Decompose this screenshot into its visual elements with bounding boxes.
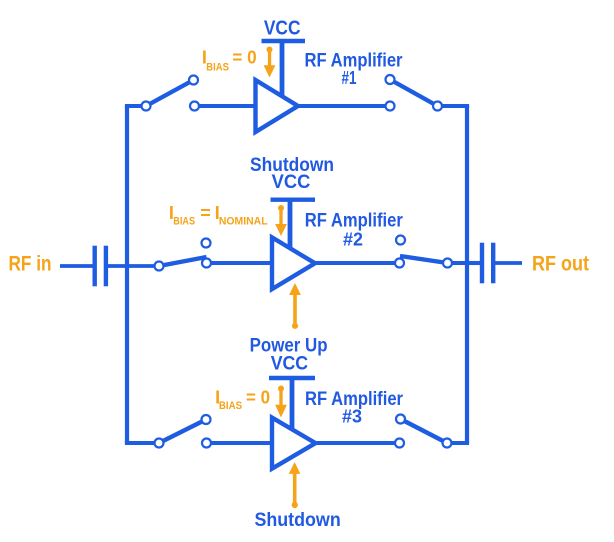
switch S3 blade (closed) <box>159 257 207 266</box>
switch S2 contact terminal <box>386 102 395 111</box>
VCC rail for U1 <box>262 39 306 43</box>
wire: right bus to output cap C2 <box>467 261 481 265</box>
switch S1 contact terminal <box>190 102 199 111</box>
bias arrow for U3 (points down) <box>275 386 287 418</box>
wire: VCC drop to amp U2 <box>288 200 293 248</box>
switch S6 open throw terminal <box>396 415 405 424</box>
switch S4 pole terminal <box>443 259 452 268</box>
bias arrow for U2 (points down) <box>275 205 287 236</box>
svg-text:#3: #3 <box>342 407 362 427</box>
wire: VCC drop to amp U1 <box>280 41 285 96</box>
switch S3 pole terminal <box>155 262 164 271</box>
wire: amp U2 output to switch S4 contact <box>312 261 400 265</box>
switch S2 open throw terminal <box>386 75 395 84</box>
bias arrow for U1 (points down) <box>264 47 276 78</box>
svg-text:RF Amplifier: RF Amplifier <box>305 210 404 231</box>
switch S3 upper throw terminal <box>202 239 211 248</box>
svg-text:#2: #2 <box>343 230 363 250</box>
wire: top branch, left corner to switch S1 pole <box>125 104 146 108</box>
wire: amp U3 output to switch S6 contact <box>312 441 400 445</box>
value label: IBIAS = 0 (U1) <box>202 48 257 74</box>
svg-text:BIAS: BIAS <box>219 400 242 412</box>
wire: right bus vertical <box>465 106 469 443</box>
switch S4 contact terminal <box>395 259 404 268</box>
switch S2 pole terminal <box>433 102 442 111</box>
svg-text:= 0: = 0 <box>232 48 256 68</box>
svg-text:= 0: = 0 <box>246 388 270 408</box>
capacitor C2 (output coupling) <box>482 243 493 284</box>
switch S6 pole terminal <box>443 439 452 448</box>
switch S1 pole terminal <box>142 102 151 111</box>
wire: S4 pole to right bus junction <box>448 261 468 265</box>
switch S1 open throw terminal <box>189 76 198 85</box>
switch S6 blade (open) <box>401 419 448 443</box>
svg-text:VCC: VCC <box>271 354 309 375</box>
svg-text:BIAS: BIAS <box>173 215 195 227</box>
capacitor C1 (input coupling) <box>95 246 106 287</box>
VCC rail for U3 <box>269 376 315 380</box>
switch S5 contact terminal <box>202 439 211 448</box>
svg-text:RF in: RF in <box>9 253 52 276</box>
svg-text:#1: #1 <box>342 68 357 88</box>
switch S2 blade (open) <box>390 80 438 107</box>
wire: S3 contact to amp U2 input <box>207 261 275 265</box>
wire: top branch, S2 pole to right corner <box>438 104 470 108</box>
switch S3 contact terminal <box>202 259 211 268</box>
amplifier U2 (RF Amplifier #2) <box>272 237 315 289</box>
switch S4 blade (closed) <box>400 256 448 263</box>
value label: IBIAS = INOMINAL (U2) <box>169 203 268 227</box>
switch S1 blade (open) <box>146 80 194 106</box>
amplifier U3 (RF Amplifier #3) <box>272 418 316 469</box>
wire: bottom branch, left corner to switch S5 pole <box>125 441 159 445</box>
svg-text:BIAS: BIAS <box>206 62 229 74</box>
VCC rail for U2 <box>271 197 316 201</box>
wire: VCC drop to amp U3 <box>290 378 295 429</box>
wire: S6 pole to right corner <box>447 441 469 445</box>
wire: left bus vertical <box>125 106 129 443</box>
wire: output cap C2 to RF out <box>495 261 523 265</box>
value label: IBIAS = 0 (U3) <box>215 388 270 412</box>
wire: top branch, S1 contact to amp U1 input <box>195 104 259 108</box>
svg-text:VCC: VCC <box>272 172 311 193</box>
switch S5 pole terminal <box>155 439 164 448</box>
wire: top branch, amp U1 output to switch S2 contact <box>295 104 390 108</box>
amplifier U1 (RF Amplifier #1) <box>256 80 299 132</box>
wire: RF in lead <box>60 264 93 268</box>
power-up arrow for U2 (points up) <box>289 283 301 329</box>
wire: input cap C1 to switch S3 pole (through left bus junction) <box>108 264 159 268</box>
switch S4 upper throw terminal <box>396 236 405 245</box>
svg-text:Shutdown: Shutdown <box>254 510 340 531</box>
wire: S5 contact to amp U3 input <box>207 441 275 445</box>
switch S5 open throw terminal <box>202 415 211 424</box>
svg-text:=: = <box>200 203 211 223</box>
svg-text:RF out: RF out <box>532 253 589 276</box>
switch S5 blade (open) <box>159 420 206 444</box>
svg-text:VCC: VCC <box>264 17 301 39</box>
shutdown arrow for U3 (points up) <box>289 462 301 508</box>
svg-text:NOMINAL: NOMINAL <box>219 215 268 227</box>
switch S6 contact terminal <box>395 439 404 448</box>
